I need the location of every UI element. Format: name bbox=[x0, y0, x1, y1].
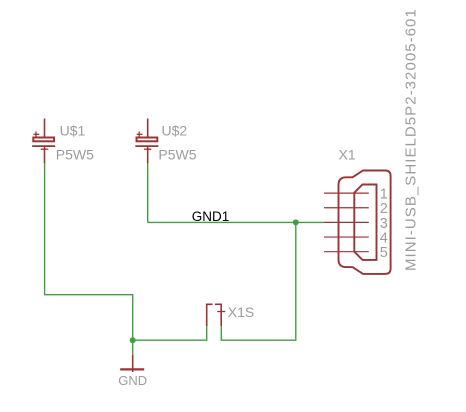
jumper X1S bbox=[206, 304, 225, 326]
svg-text:U$2: U$2 bbox=[162, 122, 188, 138]
svg-text:GND: GND bbox=[118, 373, 147, 388]
pin 1 bbox=[324, 192, 369, 194]
svg-text:GND1: GND1 bbox=[192, 209, 230, 224]
connector X1 outer shell bbox=[339, 171, 391, 274]
svg-text:4: 4 bbox=[380, 231, 388, 247]
junction dot on GND1 net bbox=[293, 219, 299, 225]
svg-text:P5W5: P5W5 bbox=[56, 147, 94, 163]
pin 4 bbox=[324, 236, 369, 238]
battery U$1 bbox=[32, 119, 55, 164]
wire U$1 down-right-down to GND junction bbox=[45, 163, 133, 340]
ground symbol GND bbox=[120, 355, 144, 372]
wire GND1 net to X1 pin 3 bbox=[148, 221, 324, 223]
pin 5 bbox=[324, 251, 369, 253]
connector X1 inner cavity bbox=[354, 185, 376, 260]
svg-text:5: 5 bbox=[380, 245, 388, 261]
svg-text:P5W5: P5W5 bbox=[158, 147, 196, 163]
svg-text:U$1: U$1 bbox=[60, 122, 86, 138]
wire GND junction down to ground pin bbox=[132, 340, 134, 355]
svg-text:X1S: X1S bbox=[228, 304, 254, 320]
pin 3 bbox=[324, 221, 369, 223]
pin 2 bbox=[324, 207, 369, 209]
battery U$2 bbox=[135, 119, 158, 164]
wire X1S left pin down to GND junction bbox=[133, 326, 207, 340]
svg-text:3: 3 bbox=[380, 216, 388, 232]
svg-text:MINI-USB_SHIELD5P2-32005-601: MINI-USB_SHIELD5P2-32005-601 bbox=[403, 8, 420, 271]
junction dot at GND node bbox=[130, 337, 136, 343]
wire junction down to X1S right pin bbox=[221, 222, 295, 340]
svg-text:2: 2 bbox=[380, 201, 388, 217]
svg-text:X1: X1 bbox=[339, 146, 356, 162]
wire U$2 down to GND1 net bbox=[147, 163, 149, 222]
svg-text:1: 1 bbox=[380, 187, 388, 203]
